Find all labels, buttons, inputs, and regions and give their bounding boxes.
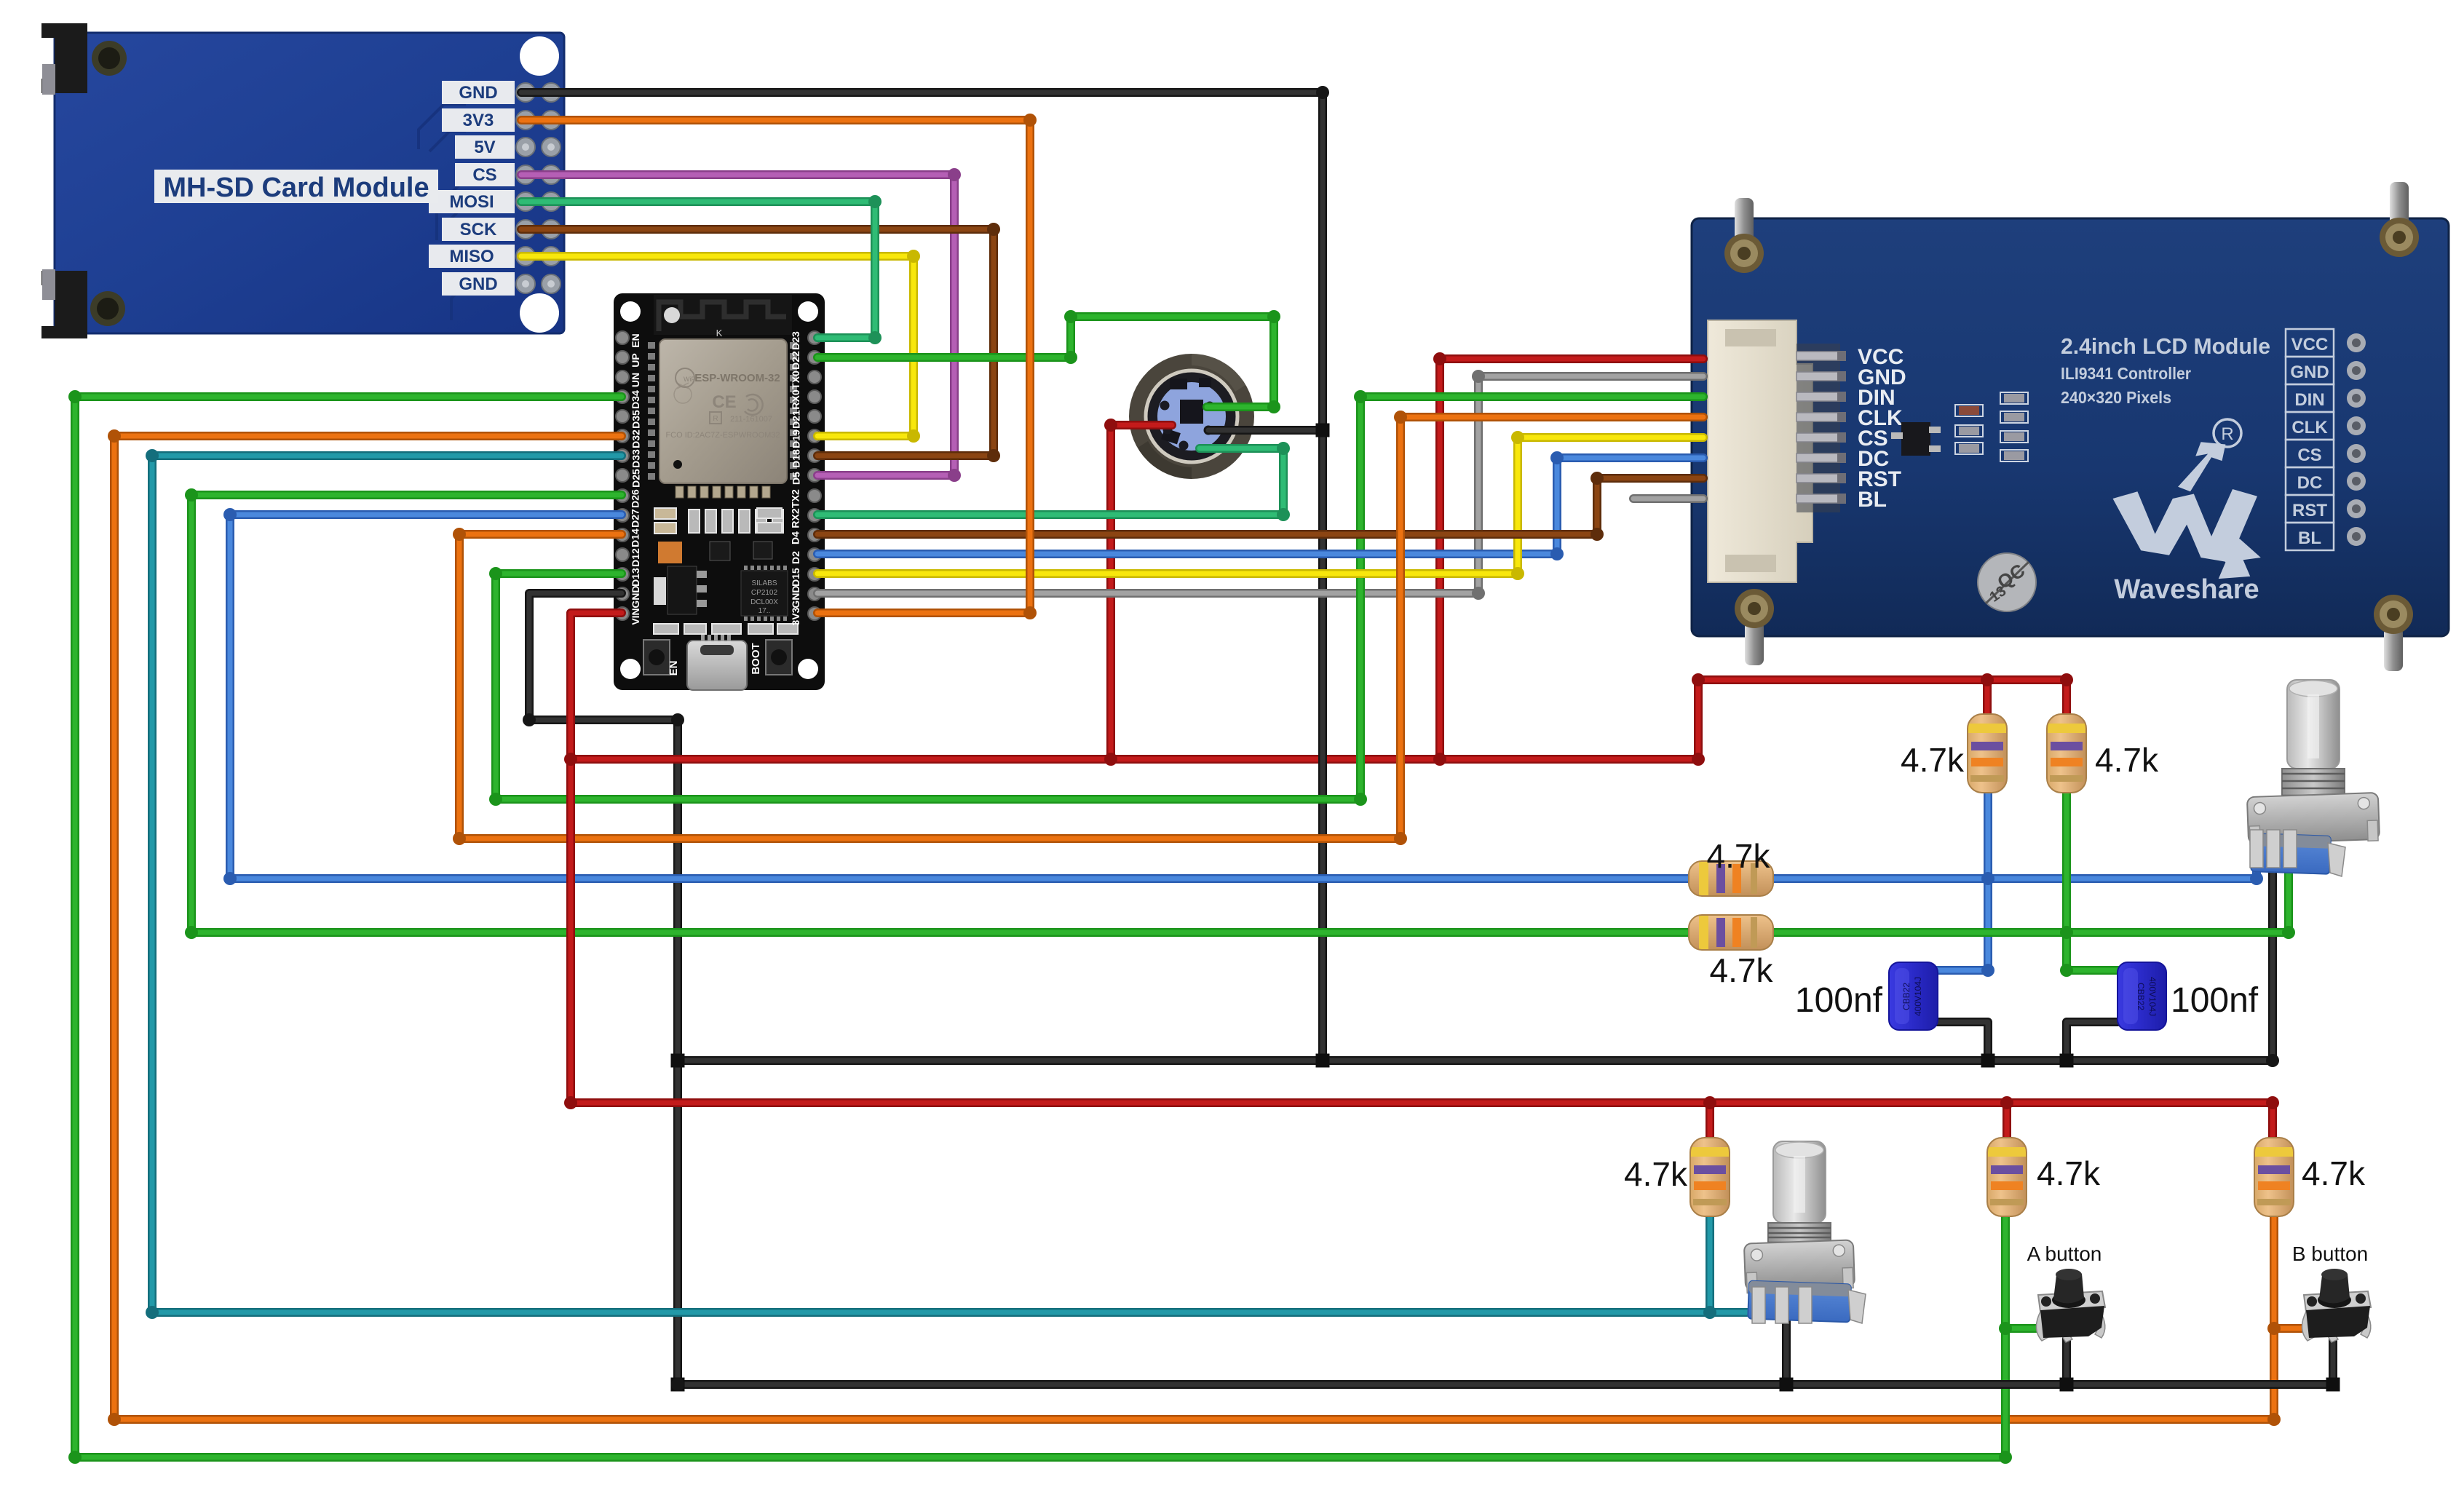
wire red ESP32 VIN to power rail (571, 613, 2273, 1138)
svg-text:400V104J: 400V104J (2147, 977, 2158, 1016)
svg-text:ESP-WROOM-32: ESP-WROOM-32 (694, 372, 780, 384)
svg-text:D34: D34 (630, 390, 641, 409)
svg-text:BOOT: BOOT (750, 643, 762, 674)
red junction and bend points (564, 753, 2279, 1109)
svg-text:CE: CE (712, 392, 736, 412)
svg-text:D4: D4 (790, 531, 801, 544)
seagreen MOSI bend points (868, 195, 882, 344)
svg-text:3V3: 3V3 (790, 607, 801, 625)
label 4.7k for R1 (1901, 741, 1965, 779)
label 100nf for C2 (2171, 981, 2259, 1020)
svg-text:UP: UP (630, 353, 641, 367)
LCD resolution text (2061, 388, 2171, 407)
svg-text:17..: 17.. (758, 607, 771, 615)
svg-text:D13: D13 (630, 568, 641, 587)
svg-text:RST: RST (2292, 501, 2327, 520)
wire green ESP32 D13 to LCD DIN (496, 397, 1703, 799)
resistor R3 4.7k (teal pull-up) (1690, 1138, 1730, 1216)
ESP32 dev board PCB and ESP-WROOM-32 shield (614, 293, 825, 690)
wire black ESP32 GND left loop (529, 593, 678, 1384)
rotary encoder 1 (top right) (2247, 680, 2380, 876)
SD module title label (154, 170, 438, 203)
wire brown SD SCK to ESP32 D18 (521, 229, 994, 456)
purple wire bend points (948, 168, 961, 482)
capacitor C1 100nf (1889, 962, 1938, 1030)
resistor R1 4.7k (blue pull-up) (1968, 714, 2007, 793)
svg-text:5V: 5V (474, 138, 495, 157)
svg-text:4.7k: 4.7k (1707, 837, 1771, 875)
wire yellow ESP32 D15 to LCD CS (817, 437, 1703, 574)
svg-text:GND: GND (2290, 362, 2329, 382)
wire green pull-up resistor lead to C2 (2067, 793, 2118, 970)
svg-text:TX0: TX0 (790, 370, 801, 389)
svg-text:D15: D15 (790, 568, 801, 587)
wire yellow SD MISO to ESP32 D19 (521, 256, 914, 436)
wire black SD GND down right side (521, 92, 1323, 1061)
svg-text:D27: D27 (630, 509, 641, 528)
resistor R7 4.7k (B button pull-up) (2254, 1138, 2294, 1216)
wire green ESP32 D26 to encoder 1 pin B (191, 495, 2289, 932)
green D34 bend points (68, 390, 2012, 1464)
wire orange SD 3V3 to ESP32 3V3 (521, 120, 1030, 613)
svg-text:GND: GND (459, 274, 497, 294)
wire black encoder 2 common pin (1782, 1300, 1791, 1384)
yellow D15 bend points (1511, 431, 1524, 580)
wire brown ESP32 D4 to LCD RST (817, 478, 1703, 534)
ESP32 pin headers and pin labels (616, 331, 821, 626)
svg-text:R: R (713, 415, 718, 423)
svg-text:GND: GND (790, 585, 801, 608)
wire green A button branch (2005, 1324, 2038, 1333)
svg-text:D32: D32 (630, 429, 641, 448)
Waveshare logo (2113, 419, 2261, 605)
svg-text:2.4inch LCD Module: 2.4inch LCD Module (2061, 333, 2270, 359)
2.4inch LCD module board (1692, 182, 2449, 671)
wire blue ESP32 D2 to LCD DC (817, 458, 1703, 554)
orange 3V3 bend points (1023, 114, 1037, 619)
label 100nf for C1 (1795, 981, 1883, 1020)
svg-text:Waveshare: Waveshare (2114, 574, 2259, 605)
svg-text:D35: D35 (630, 410, 641, 429)
PS/2 mini-DIN connector (1129, 354, 1254, 479)
wire black B button leg (2329, 1333, 2337, 1384)
svg-text:ILI9341 Controller: ILI9341 Controller (2061, 364, 2191, 383)
push button A (2036, 1269, 2105, 1342)
label 4.7k for R2 (2095, 741, 2159, 779)
LCD right pin table VCC..BL (2286, 329, 2366, 550)
push button B (2302, 1269, 2371, 1342)
rotary encoder 2 (bottom) (1744, 1141, 1866, 1323)
svg-text:D23: D23 (790, 331, 801, 350)
svg-text:EN: EN (668, 661, 680, 676)
wire red pull-up stub R3 (1706, 1103, 1714, 1138)
wire orange ESP32 D14 to LCD CLK (459, 417, 1703, 839)
wire red pull-up stub R1 (1983, 680, 1992, 714)
wire teal ESP32 D33 to encoder 2 (152, 456, 1763, 1312)
svg-text:RX2: RX2 (790, 508, 801, 528)
svg-text:RX0: RX0 (790, 389, 801, 409)
wire red LCD VCC branch (1440, 359, 1703, 759)
svg-text:211-161007: 211-161007 (730, 415, 772, 424)
green D13 bend points (489, 390, 1367, 806)
SD card module board (41, 23, 564, 338)
svg-text:D2: D2 (790, 551, 801, 564)
orange D14 bend points (453, 411, 1407, 845)
svg-text:MISO: MISO (449, 247, 494, 266)
wire red PS/2 power branch (1111, 425, 1172, 759)
svg-text:A button: A button (2027, 1243, 2102, 1265)
svg-text:4.7k: 4.7k (1901, 741, 1965, 779)
svg-text:4.7k: 4.7k (2302, 1154, 2366, 1192)
wire gray LCD BL stub (1633, 494, 1703, 503)
wire blue pull-up resistor lead to C1 (1937, 793, 1988, 970)
svg-text:MOSI: MOSI (449, 192, 494, 212)
resistor R4 4.7k (A button pull-up) (1987, 1138, 2027, 1216)
svg-text:FCO ID:2AC7Z-ESPWROOM32: FCO ID:2AC7Z-ESPWROOM32 (665, 431, 780, 440)
svg-text:DIN: DIN (2294, 390, 2324, 410)
ESP32 EN button, BOOT button and micro-USB connector (643, 635, 792, 690)
wire green ESP32 D22 to PS/2 clock (817, 317, 1274, 407)
svg-text:100nf: 100nf (2171, 981, 2259, 1020)
black junction squares (671, 424, 2340, 1392)
orange D32 bend points (108, 429, 2281, 1426)
svg-text:D12: D12 (630, 548, 641, 567)
LCD controller text (2061, 364, 2191, 383)
brown D4 bend points (1590, 472, 1604, 541)
yellow MISO bend points (907, 250, 920, 443)
svg-text:D26: D26 (630, 489, 641, 508)
svg-text:B button: B button (2292, 1243, 2368, 1265)
blue D2 bend points (1550, 451, 1564, 560)
green rail bend and junction points (185, 488, 2295, 977)
svg-text:CS: CS (2297, 445, 2321, 465)
svg-text:D18: D18 (790, 449, 801, 468)
svg-text:4.7k: 4.7k (2037, 1154, 2101, 1192)
svg-text:VIN: VIN (630, 608, 641, 625)
label B button (2292, 1243, 2368, 1265)
LCD pin silkscreen labels (1858, 345, 1906, 512)
svg-text:EN: EN (630, 333, 641, 347)
wire black ground rail to encoder 1 (678, 846, 2273, 1061)
svg-text:K: K (716, 328, 723, 338)
wire purple SD CS to ESP32 D5 (521, 175, 954, 475)
svg-text:D21: D21 (790, 410, 801, 429)
svg-text:CBB22: CBB22 (2136, 983, 2146, 1010)
svg-text:3V3: 3V3 (463, 111, 494, 130)
label A button (2027, 1243, 2102, 1265)
label 4.7k for R6 (1710, 951, 1774, 989)
capacitor C2 100nf (2118, 962, 2166, 1030)
label 4.7k for R5 (1707, 837, 1771, 875)
svg-text:100nf: 100nf (1795, 981, 1883, 1020)
svg-text:D33: D33 (630, 449, 641, 468)
svg-text:4.7k: 4.7k (1710, 951, 1774, 989)
svg-text:D25: D25 (630, 469, 641, 488)
svg-text:R: R (2221, 424, 2233, 444)
wire gray ESP32 GND to LCD GND (817, 376, 1703, 593)
svg-text:CBB22: CBB22 (1901, 983, 1912, 1010)
svg-text:CLK: CLK (2291, 418, 2328, 437)
svg-text:DCL00X: DCL00X (750, 598, 778, 606)
LCD title text (2061, 333, 2270, 359)
SD module pin labels GND 3V3 5V CS MOSI SCK MISO GND (429, 81, 560, 296)
label 4.7k for R3 (1624, 1155, 1688, 1193)
wire red pull-up stub R4 (2003, 1103, 2011, 1138)
red branch bend points (1104, 352, 2073, 766)
svg-text:MH-SD Card Module: MH-SD Card Module (163, 173, 429, 203)
wire black A button leg (2062, 1333, 2071, 1384)
svg-text:SCK: SCK (460, 220, 497, 239)
resistor R6 4.7k (green rail) (1689, 915, 1773, 950)
svg-text:D19: D19 (790, 429, 801, 448)
svg-text:GND: GND (459, 83, 497, 103)
ESP32 SMD components CP2102 AMS1117 (654, 508, 798, 634)
svg-text:4.7k: 4.7k (1624, 1155, 1688, 1193)
label 4.7k for R7 (2302, 1154, 2366, 1192)
svg-text:VCC: VCC (2291, 335, 2329, 354)
svg-text:UN: UN (630, 373, 641, 387)
wire seagreen SD MOSI to ESP32 D23 (521, 202, 875, 338)
green D22 bend points (1064, 310, 1280, 413)
svg-text:D22: D22 (790, 351, 801, 370)
QC 13 stamp (1978, 553, 2036, 611)
svg-text:TX2: TX2 (790, 489, 801, 508)
svg-text:CP2102: CP2102 (751, 589, 778, 597)
svg-text:D5: D5 (790, 472, 801, 485)
LCD white JST connector with 8 pins (1708, 320, 1846, 582)
wire red branch to PS/2 and LCD VCC (571, 680, 2067, 759)
svg-text:CS: CS (472, 165, 496, 185)
svg-text:GND: GND (630, 585, 641, 608)
svg-text:400V104J: 400V104J (1913, 977, 1923, 1016)
teal bend and junction points (146, 449, 1770, 1319)
wire black capacitor C2 lead (2067, 1022, 2118, 1061)
wire blue ESP32 D27 to encoder 1 pin A (230, 515, 2257, 879)
svg-text:D14: D14 (630, 528, 641, 547)
resistor R5 4.7k (blue rail) (1689, 861, 1773, 896)
label 4.7k for R4 (2037, 1154, 2101, 1192)
svg-text:SILABS: SILABS (751, 579, 777, 587)
wire black PS/2 ground branch (1208, 426, 1323, 435)
brown wire bend points (987, 223, 1000, 462)
wire teal resistor lead (1706, 1216, 1714, 1312)
resistor R2 4.7k (green pull-up) (2047, 714, 2086, 793)
wire black capacitor C1 lead (1937, 1022, 1988, 1061)
svg-text:240×320 Pixels: 240×320 Pixels (2061, 388, 2171, 407)
wire green ESP32 D34 to A button and resistor (75, 397, 2005, 1457)
wire orange ESP32 D32 to B button and resistor (114, 436, 2274, 1419)
svg-text:BL: BL (1858, 488, 1887, 512)
LCD SMD components (1891, 392, 2028, 461)
wire seagreen PS/2 data to ESP32 RX2 (817, 448, 1283, 515)
blue rail bend and junction points (223, 508, 2263, 977)
svg-text:BL: BL (2298, 528, 2321, 548)
svg-text:4.7k: 4.7k (2095, 741, 2159, 779)
wire black bottom ground rail (678, 1380, 2333, 1389)
wire orange B button branch (2274, 1324, 2306, 1333)
gray wire bend points (1472, 370, 1485, 600)
svg-text:DC: DC (2297, 473, 2323, 493)
black wire bend dots (523, 86, 2279, 1391)
seagreen PS/2 bend points (1277, 442, 1290, 521)
